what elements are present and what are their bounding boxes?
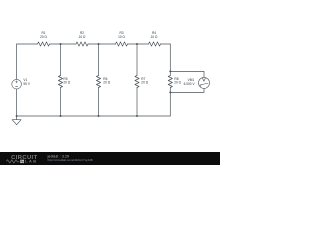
resistor R1 xyxy=(38,42,50,46)
wire R3 to node C xyxy=(128,43,149,45)
resistor R6 xyxy=(96,76,100,88)
svg-text:20 Ω: 20 Ω xyxy=(103,81,110,85)
wire shunt branch 1 upper xyxy=(60,44,62,76)
wire R2 to node B xyxy=(88,43,116,45)
svg-text:10 Ω: 10 Ω xyxy=(79,35,86,39)
wire shunt branch 2 lower xyxy=(98,88,100,117)
wire R1 to node A xyxy=(50,43,77,45)
CircuitLab logo icon box xyxy=(20,160,24,163)
wire shunt branch 3 upper xyxy=(136,44,138,76)
svg-text:10 Ω: 10 Ω xyxy=(118,35,125,39)
voltmeter top node dot xyxy=(169,70,171,72)
resistor R5 xyxy=(58,76,62,88)
wire voltmeter bottom branch xyxy=(170,88,204,92)
svg-text:95 V: 95 V xyxy=(23,82,30,86)
voltmeter VM1 xyxy=(199,77,210,88)
resistor R3 xyxy=(116,42,128,46)
wire voltmeter top branch xyxy=(170,71,204,77)
CircuitLab logo zigzag xyxy=(6,160,19,163)
svg-text:20 Ω: 20 Ω xyxy=(40,35,47,39)
node C dot xyxy=(136,43,138,45)
wire R4 to top-right corner xyxy=(161,43,171,45)
wire shunt branch 2 upper xyxy=(98,44,100,76)
bottom node dot 1 xyxy=(60,115,62,117)
voltmeter bottom node dot xyxy=(169,91,171,93)
wire left rail upper xyxy=(16,44,18,79)
node B dot xyxy=(98,43,100,45)
svg-text:20 Ω: 20 Ω xyxy=(174,81,181,85)
bottom node dot 3 xyxy=(136,115,138,117)
voltage source V1 xyxy=(12,79,22,89)
wire shunt branch 1 lower xyxy=(60,88,62,117)
svg-text:10 Ω: 10 Ω xyxy=(151,35,158,39)
svg-text:http://circuitlab.com/c/d2mrr7: http://circuitlab.com/c/d2mrr7uy138 xyxy=(48,158,93,162)
node A dot xyxy=(60,43,62,45)
ground node dot xyxy=(16,115,18,117)
wire bottom rail xyxy=(17,115,171,117)
resistor R2 xyxy=(76,42,88,46)
svg-text:LAB: LAB xyxy=(25,159,37,164)
wire right branch upper xyxy=(169,44,171,76)
watermark bar xyxy=(0,152,220,165)
wire shunt branch 3 lower xyxy=(136,88,138,117)
wire right branch lower xyxy=(169,88,171,117)
resistor R4 xyxy=(149,42,161,46)
resistor R8 xyxy=(168,76,172,88)
svg-text:20 Ω: 20 Ω xyxy=(141,81,148,85)
bottom node dot 2 xyxy=(98,115,100,117)
wire top rail left segment xyxy=(17,43,38,45)
resistor R7 xyxy=(135,76,139,88)
ground xyxy=(12,116,21,125)
wire left rail lower xyxy=(16,89,18,116)
svg-text:5.000 V: 5.000 V xyxy=(184,82,196,86)
svg-text:20 Ω: 20 Ω xyxy=(63,81,70,85)
